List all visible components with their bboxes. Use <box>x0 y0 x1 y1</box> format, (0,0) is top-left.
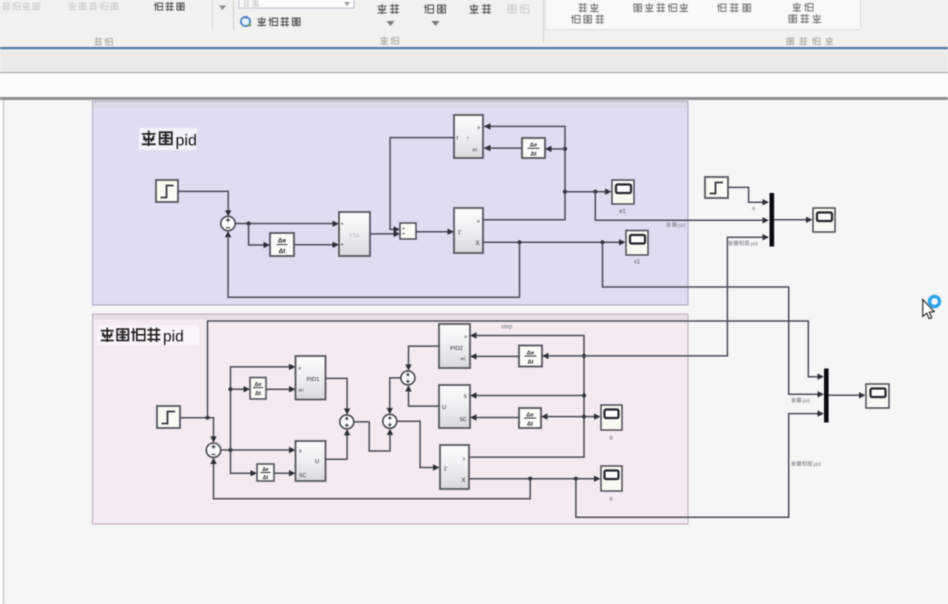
svg-text:Δe: Δe <box>526 412 534 418</box>
scope S6 <box>601 466 622 503</box>
wire plant X to scope X1, nodes <box>483 239 626 245</box>
wire D6 to U2 sc <box>470 414 519 420</box>
svg-text:′ʃ′′: ′ʃ′′ <box>466 136 470 141</box>
mux M1 <box>770 193 775 247</box>
derivative block D4 <box>257 464 274 481</box>
wire D4 to U1 sc <box>274 470 296 476</box>
toolbar group label: simulation <box>380 37 398 46</box>
wire node to D2 input <box>545 146 565 152</box>
svg-text:pid: pid <box>751 242 758 248</box>
busy spinner <box>928 295 942 309</box>
derivative block D6 <box>519 408 541 428</box>
region: fuzzy sliding-mode pid area <box>93 314 689 524</box>
wire D1 to FLC1 ec <box>294 242 339 248</box>
toolbar item: logic analyzer <box>634 3 688 13</box>
fuzzy logic controller FLC1 <box>339 212 370 256</box>
svg-text:S: S <box>464 394 468 400</box>
svg-text:1′: 1′ <box>444 467 448 473</box>
sum junction S4 <box>383 414 397 428</box>
scope S3 <box>813 208 835 232</box>
svg-text:Δe: Δe <box>278 238 287 245</box>
toolbar item: log signals (disabled) <box>2 2 39 11</box>
sum junction S1 <box>221 216 235 230</box>
wire e signal to scope E1, node B <box>565 189 612 195</box>
wire S5 output to sum S4 plus <box>387 378 401 414</box>
wire plant2 X to scope S6, nodes <box>469 476 601 482</box>
svg-text:s: s <box>299 449 302 455</box>
wire x2 signal to mux M2 input 3 <box>576 410 824 517</box>
toolbar group label: prepare <box>94 38 112 47</box>
fuzzy logic controller FLC2 <box>454 115 483 158</box>
scope E1 <box>612 180 634 215</box>
PID controller PID2 <box>439 324 470 368</box>
wire node to D6 input <box>541 413 584 419</box>
svg-text:pid: pid <box>176 133 197 150</box>
wire e signal to mux M1 input 2 <box>595 192 769 224</box>
derivative block D3 <box>250 378 266 400</box>
svg-text:X: X <box>476 241 480 247</box>
toolbar item: fast restart text <box>258 17 300 27</box>
svg-text:e: e <box>299 367 302 372</box>
svg-text:Δe: Δe <box>527 350 535 356</box>
label: wire name fuzzy smc pid (mux M2 input3) <box>791 461 821 468</box>
small block B1 <box>400 223 416 239</box>
toolbar caret <box>219 6 226 11</box>
PID controller PID1 <box>296 356 326 400</box>
scope S4 <box>866 384 889 408</box>
wire D2 to FLC2 ec <box>484 145 523 151</box>
toolbar item: step back <box>378 4 399 26</box>
svg-text:PID1: PID1 <box>307 377 320 383</box>
label: wire name fuzzy pid (mux M2 input2) <box>791 398 810 405</box>
wire sum2 error node and branches <box>221 364 296 477</box>
wire node to U2 S <box>470 392 584 398</box>
feedback wire X2 to sum2 minus <box>210 458 530 499</box>
svg-text:ec: ec <box>473 148 479 153</box>
toolbar separator 3 <box>543 0 544 43</box>
breadcrumb band <box>0 73 948 97</box>
mux M2 <box>824 369 829 423</box>
wire reference to mux M2 input 1 <box>208 321 825 418</box>
svg-text:Δt: Δt <box>527 422 533 428</box>
region: fuzzy pid area <box>93 101 689 305</box>
svg-text:Δt: Δt <box>530 152 536 158</box>
sum junction S3 <box>340 415 354 429</box>
wire FLC1 to B1 <box>370 231 400 237</box>
svg-text:x: x <box>610 497 613 503</box>
svg-text:X: X <box>462 478 466 484</box>
svg-text:U: U <box>442 405 446 411</box>
derivative block D5 <box>519 346 542 367</box>
svg-text:o: o <box>463 457 466 462</box>
wire o2 signal exits to mux M1 input 3 <box>584 234 769 356</box>
scope X1 <box>626 231 648 266</box>
step source Step <box>156 180 178 202</box>
wire node to D5 input <box>542 353 584 359</box>
wire o2 signal to scope S5 <box>584 413 601 419</box>
derivative block D1 <box>270 233 294 256</box>
sum junction S2 <box>206 443 220 457</box>
wire U2 output to sum S5 lower plus <box>405 385 439 406</box>
wire PID2 output to sum S5 plus <box>405 346 439 371</box>
step source Step2 <box>157 406 180 428</box>
toolbar item: simulation manager <box>789 3 821 24</box>
wire D5 to PID2 ec <box>470 353 519 359</box>
svg-text:Δt: Δt <box>279 248 287 255</box>
toolbar group label: view results <box>787 37 833 46</box>
wire D3 to PID1 ec <box>266 386 296 392</box>
svg-text:pid: pid <box>163 329 184 346</box>
svg-text:step: step <box>501 325 513 331</box>
toolbar item: fast restart icon <box>241 16 251 27</box>
scope S5 <box>601 405 622 442</box>
sum junction S5 <box>401 371 415 385</box>
wire plant o feedback to FLC2 e <box>483 123 567 220</box>
feedback wire X to sum1 minus <box>225 231 520 297</box>
toolbar background <box>0 0 948 47</box>
toolbar item: stop (disabled) <box>508 5 529 14</box>
derivative block D2 <box>522 138 545 158</box>
svg-text:pid: pid <box>803 399 810 405</box>
toolbar item: run <box>424 5 445 26</box>
svg-text:e1: e1 <box>619 209 626 215</box>
plant subsystem P1 <box>454 208 483 253</box>
wire mux M1 to scope S3 <box>774 217 812 223</box>
toolbar item: step forward <box>470 4 491 14</box>
sliding mode controller U1 <box>296 441 326 481</box>
svg-text:x1: x1 <box>634 260 641 266</box>
collapsed ribbon band <box>0 51 948 73</box>
wire step to sum1 <box>178 191 231 216</box>
canvas left edge line <box>0 100 4 604</box>
canvas top border <box>0 97 948 100</box>
svg-text:ec: ec <box>461 357 467 362</box>
svg-text:Δt: Δt <box>255 391 261 397</box>
sliding mode controller U2 <box>439 385 470 428</box>
svg-text:e: e <box>465 335 468 340</box>
svg-text:|·′′|,1: |·′′|,1 <box>350 233 360 238</box>
toolbar item: birds eye <box>717 3 750 13</box>
wire step1 to mux M1 input 1 <box>728 187 769 205</box>
wire PID1 to sum S3 plus <box>326 378 351 414</box>
wire step2 to sum S2, node R <box>180 416 217 443</box>
wire B1 to plant P1 <box>416 229 454 235</box>
svg-text:Δt: Δt <box>263 475 269 481</box>
svg-text:o: o <box>752 206 755 212</box>
svg-text:SC: SC <box>299 473 306 479</box>
toolbar separator 1 <box>212 0 213 29</box>
toolbar item: add viewer (disabled) <box>68 2 117 11</box>
svg-text:Δt: Δt <box>527 360 533 366</box>
plant subsystem P2 <box>440 445 469 489</box>
toolbar item: data inspector <box>571 3 604 24</box>
toolbar combo box <box>239 0 354 8</box>
svg-text:ec: ec <box>299 389 305 394</box>
toolbar item: signal table <box>154 2 184 11</box>
svg-text:PID2: PID2 <box>450 346 463 352</box>
wire S3 to sum S4 lower plus <box>354 422 393 451</box>
wire mux M2 to scope S4 <box>829 392 866 398</box>
label: fuzzy pid title <box>139 128 197 150</box>
wire FLC2 output down to B1 <box>390 138 454 233</box>
label: fuzzy smc pid title <box>97 325 199 346</box>
wire S4 output to plant P2 <box>397 421 440 470</box>
mouse cursor <box>923 300 934 319</box>
svg-text:Δe: Δe <box>254 382 261 388</box>
svg-text:SC: SC <box>460 417 467 423</box>
toolbar separator 2 <box>233 0 234 30</box>
label: wire name fuzzy pid (purple exit) <box>666 222 685 229</box>
wire x1 signal to mux M2 input 2 <box>603 242 825 397</box>
wire U1 to sum S3 lower plus <box>326 429 351 459</box>
svg-text:o: o <box>477 220 480 225</box>
svg-text:pid: pid <box>814 462 821 468</box>
label: wire name fuzzy smc pid (to mux M1) <box>728 241 758 248</box>
toolbar blue accent line <box>0 47 948 50</box>
toolbar right panel <box>545 0 861 30</box>
svg-text:Δe: Δe <box>530 143 538 149</box>
svg-text:1′: 1′ <box>458 230 462 236</box>
wire sum1 to FLC1 e, node A <box>235 221 339 249</box>
wire plant2 o feedback riser to PID2 e <box>469 332 586 457</box>
step source Step1 right <box>705 177 728 198</box>
svg-text:pid: pid <box>678 223 685 229</box>
svg-text:e: e <box>478 126 481 131</box>
svg-text:U: U <box>315 459 319 465</box>
